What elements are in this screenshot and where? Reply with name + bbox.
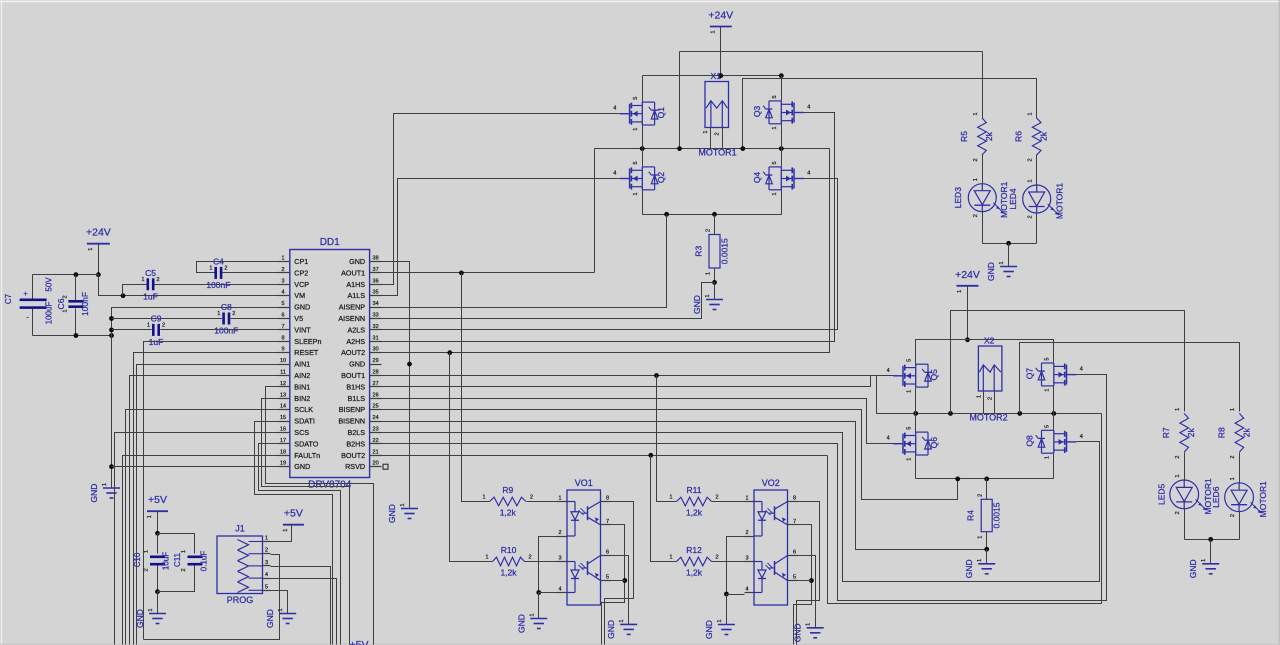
transistor Q3 <box>752 95 811 129</box>
junction VO2 pin4 gnd <box>724 592 729 597</box>
svg-text:5: 5 <box>907 427 913 430</box>
svg-text:1: 1 <box>1230 408 1236 411</box>
IC U-DD1 DRV8704 <box>279 237 382 491</box>
svg-text:4: 4 <box>613 171 616 177</box>
wire gnd rail C6 C7 <box>33 335 112 337</box>
svg-text:4: 4 <box>558 587 561 593</box>
svg-text:1: 1 <box>147 515 153 518</box>
svg-text:VCP: VCP <box>294 280 309 289</box>
junction BOUT1-R11 <box>654 373 659 378</box>
svg-text:0.0015: 0.0015 <box>720 238 730 264</box>
svg-text:AOUT1: AOUT1 <box>341 268 365 277</box>
transistor Q7 <box>1024 358 1083 392</box>
svg-text:2: 2 <box>144 568 150 571</box>
svg-text:1: 1 <box>619 619 625 622</box>
wire A1LS to Q2 gate <box>382 179 620 296</box>
svg-text:100nF: 100nF <box>80 292 90 316</box>
svg-text:1: 1 <box>558 496 561 502</box>
svg-text:2: 2 <box>978 494 984 497</box>
svg-text:5: 5 <box>1045 425 1051 428</box>
svg-text:31: 31 <box>373 335 379 341</box>
wire GND p5 row <box>112 308 290 489</box>
ground IC left <box>89 483 120 502</box>
svg-text:1: 1 <box>181 550 187 553</box>
svg-text:GND: GND <box>349 257 365 266</box>
svg-text:+24V: +24V <box>955 269 980 281</box>
svg-text:GND: GND <box>964 559 974 578</box>
wire A2LS to Q4 gate <box>382 179 838 330</box>
wire R8 to LED6 <box>1239 453 1241 483</box>
svg-text:VO2: VO2 <box>762 478 780 488</box>
svg-text:A1LS: A1LS <box>348 291 366 300</box>
svg-text:CP2: CP2 <box>294 268 308 277</box>
svg-text:B2LS: B2LS <box>348 428 366 437</box>
svg-text:BISENP: BISENP <box>339 405 366 414</box>
svg-text:2: 2 <box>988 397 994 400</box>
svg-text:GND: GND <box>294 462 310 471</box>
svg-text:23: 23 <box>373 427 379 433</box>
led LED6 <box>1211 477 1268 517</box>
wire AISENP sense <box>382 215 667 308</box>
svg-text:+: + <box>24 291 28 298</box>
svg-text:4: 4 <box>807 171 810 177</box>
optocoupler VO2 <box>745 478 798 605</box>
svg-text:+5V: +5V <box>148 494 167 506</box>
wire C6 top lead <box>75 275 77 301</box>
svg-text:C7: C7 <box>4 293 13 304</box>
wire BOUT1 to bus2 <box>877 376 916 414</box>
wire VO1 pin6 gnd <box>611 556 629 625</box>
junction monitor1 drop <box>948 411 953 416</box>
svg-text:1: 1 <box>529 613 535 616</box>
wire VINT row <box>112 329 290 331</box>
svg-text:A1HS: A1HS <box>346 280 365 289</box>
wire AOUT2 monitor rail y=78.4 <box>743 79 1037 149</box>
wire AOUT bus1 <box>595 148 830 150</box>
svg-text:2: 2 <box>973 214 979 217</box>
wire X1 pin2 <box>722 128 724 149</box>
svg-text:1: 1 <box>669 555 672 561</box>
power +5V (J1) <box>283 508 304 532</box>
wire monitor rail to R8 <box>1020 343 1240 414</box>
svg-text:8: 8 <box>606 496 609 502</box>
svg-text:1: 1 <box>482 495 485 501</box>
svg-text:GND: GND <box>793 623 803 642</box>
power +5V (bottom) <box>350 639 369 645</box>
svg-text:LED5: LED5 <box>1157 483 1167 505</box>
svg-text:2: 2 <box>62 295 68 298</box>
svg-text:+24V: +24V <box>86 227 111 239</box>
svg-text:19: 19 <box>280 461 286 467</box>
capacitor C10 10uF <box>133 550 171 572</box>
resistor R4 0.0015 <box>966 494 1002 539</box>
wire LED5 to bus <box>1184 509 1186 540</box>
wire BISENN sense <box>382 422 987 550</box>
svg-text:2: 2 <box>715 132 721 135</box>
ground VO1 output <box>606 619 637 638</box>
svg-text:DRV8704: DRV8704 <box>308 480 352 491</box>
ground VO2 output <box>793 623 824 642</box>
wire J1 pin5 <box>271 591 288 614</box>
wire Q8 source <box>1053 454 1055 479</box>
svg-text:1: 1 <box>705 294 711 297</box>
junction AOUT1-R9 <box>459 271 464 276</box>
wire Q2 source <box>642 190 644 215</box>
junction rail drop A <box>677 146 682 151</box>
junction +24V left <box>96 272 101 277</box>
svg-text:100nF: 100nF <box>206 280 230 290</box>
wire VO1 pin4 <box>539 592 557 594</box>
svg-text:Q4: Q4 <box>752 172 762 184</box>
svg-text:2: 2 <box>181 568 187 571</box>
svg-text:1: 1 <box>1028 112 1034 115</box>
wire C10 gnd stub <box>157 592 159 614</box>
pin labels X2 <box>977 395 994 400</box>
svg-text:2: 2 <box>715 555 718 561</box>
wire Q4 source <box>781 190 783 215</box>
wire R7 to LED5 <box>1184 453 1186 481</box>
svg-text:R6: R6 <box>1014 131 1024 142</box>
svg-text:37: 37 <box>373 267 379 273</box>
svg-text:6: 6 <box>606 550 609 556</box>
svg-text:38: 38 <box>373 256 379 262</box>
power +24V (bridge 2) <box>955 269 980 293</box>
wire Q3 drain <box>781 76 783 101</box>
junction C9 gnd <box>109 328 114 333</box>
wire BOUT2 to bus2 <box>828 414 1102 604</box>
svg-text:2k: 2k <box>1186 428 1196 438</box>
wire SCLK <box>126 410 279 645</box>
net label MOTOR1 <box>698 148 736 158</box>
wire BIN1 <box>266 387 374 645</box>
svg-text:2k: 2k <box>984 131 994 141</box>
wire C4 lead1 <box>197 262 290 273</box>
svg-text:PROG: PROG <box>227 595 254 605</box>
wire VO2 pin7 out <box>794 525 812 645</box>
wire C4 lead2 <box>223 272 290 274</box>
svg-text:2k: 2k <box>1039 131 1049 141</box>
svg-text:1,2k: 1,2k <box>686 508 703 518</box>
svg-text:8: 8 <box>793 496 796 502</box>
wire R4 gnd stub <box>986 550 988 564</box>
junction sense1 top <box>664 212 669 217</box>
wire AIN2 <box>130 376 279 645</box>
wire R6 to LED4 <box>1036 155 1038 185</box>
svg-text:2: 2 <box>973 158 979 161</box>
junction Q3 drain node <box>779 73 784 78</box>
svg-text:2: 2 <box>1175 511 1181 514</box>
wire Q3-Q4 node <box>781 124 783 167</box>
transistor Q6 <box>887 427 940 461</box>
svg-text:26: 26 <box>373 392 379 398</box>
power +24V (left) <box>86 227 111 251</box>
svg-text:10: 10 <box>280 358 286 364</box>
connector X1 MOTOR1 <box>705 71 729 128</box>
transistor Q4 <box>752 161 811 195</box>
svg-text:1: 1 <box>141 277 144 283</box>
svg-text:1: 1 <box>147 322 150 328</box>
wire J1 pin1 <box>271 525 292 542</box>
wire R3 bottom lead <box>714 269 716 283</box>
svg-text:Q7: Q7 <box>1024 368 1034 380</box>
wire C10-C11 top <box>158 534 195 554</box>
svg-text:J1: J1 <box>235 524 245 534</box>
svg-text:1,2k: 1,2k <box>500 568 517 578</box>
svg-text:R5: R5 <box>959 131 969 142</box>
wire BOUT1 to R11 <box>657 376 677 502</box>
wire monitor rail to R5 <box>982 52 984 119</box>
resistor R5 2k <box>959 112 994 161</box>
svg-text:1: 1 <box>400 503 406 506</box>
svg-text:RSVD: RSVD <box>345 462 365 471</box>
svg-text:C9: C9 <box>151 313 162 323</box>
wire BISENP sense <box>382 410 958 500</box>
svg-text:5: 5 <box>633 161 639 164</box>
svg-text:R8: R8 <box>1216 427 1226 438</box>
svg-text:14: 14 <box>280 404 286 410</box>
svg-text:24: 24 <box>373 415 379 421</box>
svg-text:16: 16 <box>280 427 286 433</box>
svg-text:2: 2 <box>162 322 165 328</box>
svg-text:6: 6 <box>793 550 796 556</box>
svg-text:5: 5 <box>772 161 778 164</box>
connector X2 MOTOR2 <box>978 336 1002 392</box>
svg-text:4: 4 <box>281 290 284 296</box>
svg-text:1: 1 <box>907 390 913 393</box>
wire monitor rail left drop <box>679 52 681 149</box>
wire R5 to LED3 <box>982 155 984 185</box>
svg-text:CP1: CP1 <box>294 257 308 266</box>
junction R4 top <box>984 477 989 482</box>
svg-text:Q2: Q2 <box>656 172 666 184</box>
svg-text:5: 5 <box>772 95 778 98</box>
wire bottom bus1 <box>643 214 782 216</box>
wire +24V rail A <box>643 75 782 77</box>
wire led56 bus <box>1185 539 1240 541</box>
svg-text:GND: GND <box>606 620 616 639</box>
wire AOUT2 to R10 <box>450 353 493 562</box>
wire VO2 gnd stub <box>726 595 728 625</box>
svg-text:18: 18 <box>280 449 286 455</box>
svg-text:Q3: Q3 <box>752 106 762 118</box>
svg-text:1: 1 <box>278 608 284 611</box>
svg-text:X1: X1 <box>711 71 722 81</box>
wire C7 top rail <box>33 274 99 276</box>
wire VM feed <box>99 275 290 296</box>
wire R3 top lead <box>714 215 716 235</box>
svg-text:100uF: 100uF <box>44 302 53 325</box>
wire BOUT2 row <box>382 455 828 457</box>
svg-text:28: 28 <box>373 370 379 376</box>
wire led34 gnd stub <box>1008 244 1010 267</box>
svg-text:R7: R7 <box>1161 427 1171 438</box>
svg-text:2k: 2k <box>1241 428 1251 438</box>
wire R3 gnd stub <box>714 283 716 300</box>
svg-text:3: 3 <box>265 560 268 566</box>
wire C7 bottom lead <box>32 309 34 336</box>
svg-text:1: 1 <box>1201 559 1207 562</box>
wire R4 top lead <box>986 479 988 500</box>
svg-text:21: 21 <box>373 449 379 455</box>
wire J1 pin3 <box>271 567 331 645</box>
svg-text:1: 1 <box>62 309 68 312</box>
junction p19 gnd <box>109 464 114 469</box>
svg-text:5: 5 <box>281 301 284 307</box>
svg-text:2: 2 <box>558 530 561 536</box>
svg-text:25: 25 <box>373 404 379 410</box>
junction C5 drop <box>121 293 126 298</box>
svg-text:5: 5 <box>907 359 913 362</box>
wire bottom bus2 <box>916 478 1054 480</box>
svg-text:1: 1 <box>1230 477 1236 480</box>
svg-text:R3: R3 <box>694 246 704 257</box>
ground R3 <box>692 294 723 313</box>
svg-text:36: 36 <box>373 278 379 284</box>
junction monitor2 drop <box>1017 411 1022 416</box>
svg-text:0.0015: 0.0015 <box>992 502 1002 528</box>
svg-text:2: 2 <box>1028 158 1034 161</box>
svg-text:C5: C5 <box>145 268 156 278</box>
wire GND p38-p29 <box>382 262 410 508</box>
svg-text:2: 2 <box>156 277 159 283</box>
svg-text:1: 1 <box>1175 408 1181 411</box>
svg-text:1: 1 <box>717 619 723 622</box>
wire X2 pin2 <box>994 391 996 414</box>
ground LED3 LED4 <box>986 261 1017 280</box>
ground J1 <box>265 608 296 627</box>
svg-text:1: 1 <box>633 128 639 131</box>
svg-text:+5V: +5V <box>284 508 303 520</box>
svg-text:SDATO: SDATO <box>294 439 319 448</box>
svg-text:X2: X2 <box>984 336 995 346</box>
pin 20 RSVD no-connect marker <box>383 464 388 469</box>
junction VO1 pin5 <box>622 578 627 583</box>
svg-text:A2HS: A2HS <box>346 337 365 346</box>
svg-text:C6: C6 <box>56 298 66 309</box>
wire B1HS to Q5 gate <box>382 376 894 387</box>
wire BOUT1 row <box>382 375 877 377</box>
svg-text:10uF: 10uF <box>162 552 171 570</box>
svg-text:2: 2 <box>265 548 268 554</box>
svg-text:2: 2 <box>232 311 235 317</box>
svg-text:GND: GND <box>704 620 714 639</box>
junction VO2 pin5 <box>809 578 814 583</box>
svg-text:LED6: LED6 <box>1211 486 1221 508</box>
capacitor C4 100nF <box>206 256 230 290</box>
svg-text:4: 4 <box>887 368 890 374</box>
wire VO2 pin5 link <box>798 580 812 582</box>
junction GND p29 <box>407 362 412 367</box>
svg-text:12: 12 <box>280 381 286 387</box>
ground IC right <box>387 503 418 522</box>
junction AOUT2-R10 <box>447 350 452 355</box>
transistor Q8 <box>1024 425 1083 459</box>
svg-text:1: 1 <box>957 290 963 293</box>
capacitor C5 1uF <box>141 268 159 302</box>
resistor R10 1,2k <box>485 545 531 578</box>
net label MOTOR2 <box>969 412 1007 422</box>
svg-text:11: 11 <box>280 370 286 376</box>
svg-text:BIN2: BIN2 <box>294 394 310 403</box>
svg-text:VINT: VINT <box>294 325 311 334</box>
svg-text:1: 1 <box>973 178 979 181</box>
wire C10 bottom lead <box>157 566 159 592</box>
wire R12 to VO2 pin3 <box>712 561 745 563</box>
ground R4 <box>964 559 995 578</box>
junction Q3 source <box>779 146 784 151</box>
svg-text:4: 4 <box>887 436 890 442</box>
svg-text:B1LS: B1LS <box>348 394 366 403</box>
svg-text:2: 2 <box>1230 456 1236 459</box>
svg-text:3: 3 <box>281 278 284 284</box>
svg-text:1: 1 <box>973 112 979 115</box>
junction X1 top node <box>718 73 723 78</box>
junction +24V-2 <box>965 337 970 342</box>
wire BOUT bus2 <box>877 413 1102 415</box>
capacitor C6 100nF <box>56 292 90 316</box>
wire LED3 to bus <box>982 212 984 244</box>
wire X1 pin1 <box>710 128 712 149</box>
resistor R3 0.0015 <box>694 229 730 275</box>
wire VO2 pin6 gnd <box>798 556 816 628</box>
wire Q6 source <box>915 455 917 479</box>
wire C10-C11 bottom <box>158 566 195 592</box>
wire AOUT1 row <box>382 272 595 274</box>
wire C5 lead1 <box>123 285 147 296</box>
wire bus1 to AOUT1 pin <box>594 149 596 273</box>
svg-text:1: 1 <box>745 496 748 502</box>
junction gnd rail <box>109 333 114 338</box>
wire R11 to VO2 pin1 <box>712 501 745 503</box>
wire C10 top lead <box>157 534 159 554</box>
svg-text:2: 2 <box>530 495 533 501</box>
wire AOUT1 to R9 <box>462 273 490 502</box>
svg-text:15: 15 <box>280 415 286 421</box>
svg-text:+5V: +5V <box>350 639 369 645</box>
svg-text:C8: C8 <box>221 302 232 312</box>
junction R3 bottom <box>712 280 717 285</box>
wire AOUT2 row <box>382 149 830 353</box>
svg-text:R10: R10 <box>501 545 517 555</box>
svg-text:9: 9 <box>281 347 284 353</box>
wire VO1 pin7 out <box>602 525 625 645</box>
wire A2HS to Q3 gate <box>382 113 835 342</box>
svg-text:5: 5 <box>606 575 609 581</box>
svg-text:RESET: RESET <box>294 348 319 357</box>
wire V5 row <box>112 318 290 320</box>
svg-text:1: 1 <box>281 256 284 262</box>
svg-text:GND: GND <box>349 360 365 369</box>
wire +5V stub C10 <box>157 512 159 534</box>
svg-text:Q5: Q5 <box>929 369 939 381</box>
wire BOUT2 to R12 <box>651 456 677 562</box>
svg-text:4: 4 <box>1080 434 1083 440</box>
svg-text:2: 2 <box>745 530 748 536</box>
svg-text:1: 1 <box>999 261 1005 264</box>
wire B2HS to Q7 gate <box>382 375 1107 601</box>
svg-text:C10: C10 <box>133 552 142 567</box>
svg-text:3: 3 <box>745 556 748 562</box>
led LED4 <box>1008 179 1064 219</box>
svg-text:GND: GND <box>387 504 397 523</box>
junction C8 gnd <box>109 316 114 321</box>
wire Q5-Q6 node <box>915 388 917 433</box>
wire VO2 pin8 out <box>797 502 820 645</box>
wire +24V left stub <box>98 244 100 275</box>
svg-text:GND: GND <box>294 303 310 312</box>
svg-text:3: 3 <box>558 556 561 562</box>
svg-text:SCLK: SCLK <box>294 405 313 414</box>
